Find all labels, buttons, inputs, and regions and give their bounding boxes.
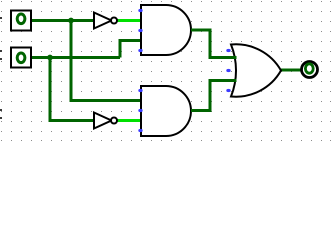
wire NOT2 output (logic 1, bright) to AND2 pin 4: [118, 119, 142, 122]
inverter U2 bubble: [111, 118, 117, 124]
input pin B (square): [11, 48, 31, 68]
wire net A: pin A output to NOT1 input: [31, 19, 93, 22]
G2 pin 5 unconnected marker: [138, 129, 142, 132]
AND gate G1 body: [141, 5, 191, 55]
inverter U1 bubble: [111, 18, 117, 24]
inverter U1 triangle: [94, 13, 112, 29]
clipped label fragment left of pin A: [0, 17, 2, 19]
wire net B elbow: up then east to AND1 pin 4: [120, 41, 141, 58]
G1 pin 3 unconnected marker: [138, 29, 142, 32]
input pin A (square): [11, 11, 31, 31]
inverter U2 triangle: [94, 113, 112, 129]
G1 pin 5 unconnected marker: [138, 49, 142, 52]
value label 0 of pin A: [17, 14, 25, 24]
clipped label fragment left of pin B: [0, 50, 2, 60]
wire NOT1 output (logic 1, bright) to AND1 pin 2: [118, 19, 142, 22]
G3 pin 3 unconnected marker: [226, 69, 230, 72]
G1 pin 1 unconnected marker: [138, 9, 142, 12]
node J2 junction on net B: [47, 55, 53, 61]
G2 pin 1 unconnected marker: [138, 89, 142, 92]
G2 pin 3 unconnected marker: [138, 109, 142, 112]
wire net A branch: J1 down then east to AND2 pin 2: [71, 21, 141, 101]
wire net B branch: J2 down then east to NOT2 input: [50, 58, 93, 121]
wire AND1 output east, south, east to OR gate top input: [191, 30, 237, 58]
wire net B: pin B output east: [31, 56, 120, 59]
node J1 junction on net A: [68, 18, 74, 24]
value label 0 of output pin: [305, 64, 313, 73]
output pin (circle): [302, 62, 318, 78]
G3 pin 1 unconnected marker: [226, 49, 230, 52]
clipped label fragment lower left: [0, 109, 2, 119]
value label 0 of pin B: [17, 53, 25, 63]
canvas background: [0, 0, 331, 141]
wire AND2 output east, north, east to OR gate bottom input: [191, 81, 237, 111]
AND gate G2 body: [141, 86, 191, 136]
OR gate G3 body: [231, 44, 281, 96]
G3 pin 5 unconnected marker: [226, 89, 230, 92]
wire OR output to output pin: [281, 69, 301, 72]
